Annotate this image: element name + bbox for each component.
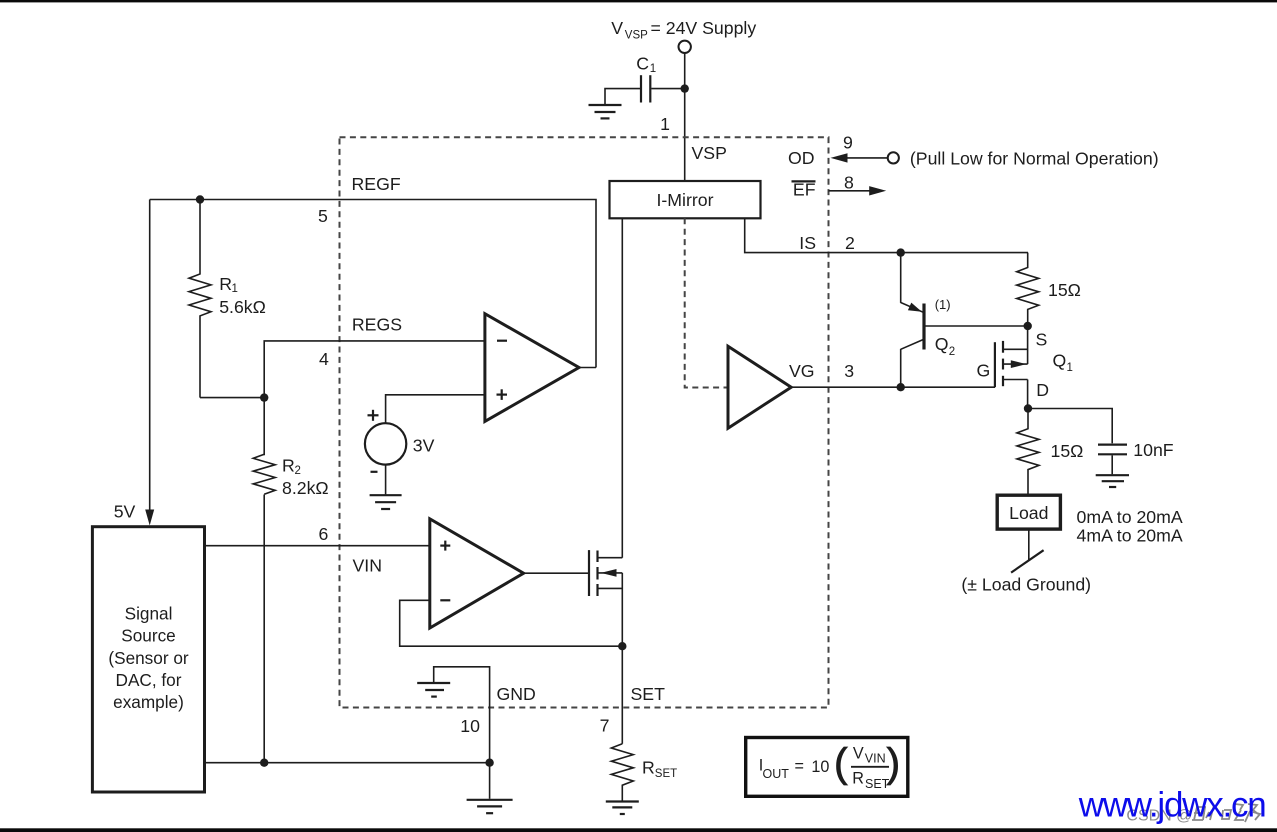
terminal OD — [888, 152, 899, 163]
svg-text:V: V — [853, 745, 864, 763]
svg-text:1: 1 — [660, 114, 670, 134]
wire M1 drain to I-Mirror — [621, 218, 623, 557]
wire U2 output to M1 gate — [524, 572, 588, 574]
ground at GND internal — [417, 683, 450, 697]
wire 3V to op-amp U1 plus input — [386, 395, 485, 423]
svg-text:SET: SET — [631, 684, 666, 704]
svg-text:EF: EF — [793, 179, 816, 199]
svg-text:10nF: 10nF — [1133, 440, 1174, 460]
wire I-Mirror to IS pin — [745, 218, 1028, 252]
svg-text:VIN: VIN — [353, 556, 383, 576]
svg-text:VG: VG — [789, 361, 815, 381]
svg-text:IS: IS — [799, 233, 816, 253]
svg-text:example): example) — [113, 692, 184, 712]
transistor Q2 (PNP) — [901, 303, 924, 350]
wire VG to Q1 gate — [791, 386, 995, 388]
svg-text:(Sensor or: (Sensor or — [108, 648, 189, 668]
wire VIN net — [205, 545, 430, 547]
svg-text:R: R — [219, 274, 232, 294]
label load currents — [1077, 507, 1183, 545]
wire Q2 base to node S — [925, 325, 1028, 327]
wire D node to C2 — [1028, 409, 1112, 444]
pin label EF with overline — [792, 179, 816, 199]
resistor R4 15ohm (D to Load) — [1017, 409, 1039, 494]
svg-text:R: R — [852, 770, 864, 788]
node S — [1023, 322, 1031, 330]
svg-text:2: 2 — [949, 346, 955, 358]
node supply/C1 — [681, 84, 689, 92]
ground at RSET — [606, 802, 639, 815]
svg-text:R: R — [282, 456, 295, 476]
op-amp U1 — [485, 314, 579, 422]
wire op-amp U1 output to REGF — [579, 367, 596, 369]
svg-text:4: 4 — [319, 349, 329, 369]
svg-text:7: 7 — [600, 716, 610, 736]
svg-text:Load: Load — [1009, 503, 1048, 523]
transistor Q1 P-MOSFET — [995, 326, 1028, 409]
svg-text:(: ( — [834, 740, 848, 786]
svg-text:10: 10 — [460, 716, 480, 736]
wire dashed I-Mirror to buffer — [685, 218, 728, 387]
svg-text:1: 1 — [1067, 362, 1073, 374]
svg-text:VSP: VSP — [692, 143, 727, 163]
resistor RSET — [611, 744, 633, 801]
node REGF/R1 — [196, 195, 204, 203]
wire REGF net — [150, 200, 596, 368]
wire R1 bottom to R2 node — [200, 397, 264, 399]
svg-text:2: 2 — [295, 465, 301, 477]
label C1 — [636, 53, 656, 75]
wire C1 to supply node — [651, 88, 684, 90]
ground at C1 — [589, 105, 622, 118]
svg-text:2: 2 — [845, 233, 855, 253]
svg-text:15Ω: 15Ω — [1048, 280, 1081, 300]
svg-text:S: S — [1036, 330, 1048, 350]
capacitor C1 — [641, 75, 650, 102]
wire bus to ground — [489, 763, 491, 799]
load box — [997, 495, 1060, 529]
wire R2 to ground bus — [263, 495, 265, 763]
svg-text:10: 10 — [811, 758, 829, 776]
svg-text:REGS: REGS — [352, 315, 402, 335]
svg-text:): ) — [887, 740, 901, 786]
op-amp U2 — [430, 519, 524, 628]
svg-text:SET: SET — [655, 768, 677, 780]
wire EF output with arrowhead — [829, 186, 887, 195]
svg-text:G: G — [977, 360, 991, 380]
label R1 — [219, 274, 238, 295]
svg-text:OUT: OUT — [763, 767, 790, 781]
svg-text:DAC, for: DAC, for — [116, 670, 182, 690]
svg-text:5: 5 — [318, 206, 328, 226]
node SET/feedback — [618, 642, 626, 650]
node bus/GND — [485, 759, 493, 767]
svg-text:15Ω: 15Ω — [1051, 441, 1084, 461]
svg-text:(Pull Low for Normal Operation: (Pull Low for Normal Operation) — [910, 148, 1159, 168]
svg-text:VSP: VSP — [625, 30, 648, 42]
svg-text:4mA to 20mA: 4mA to 20mA — [1077, 525, 1183, 545]
svg-text:1: 1 — [650, 63, 656, 75]
wire supply terminal to VSP pin 1 — [684, 53, 686, 181]
watermark CSDN gray — [1126, 804, 1260, 824]
svg-text:= 24V Supply: = 24V Supply — [651, 18, 757, 38]
label RSET — [642, 758, 677, 780]
svg-text:=: = — [795, 758, 804, 776]
svg-text:I-Mirror: I-Mirror — [657, 190, 714, 210]
svg-text:6: 6 — [319, 524, 329, 544]
label R2 — [282, 456, 301, 477]
ground at 3V — [370, 495, 402, 509]
label Q1 — [1053, 351, 1073, 375]
wire C2 to ground — [1111, 455, 1113, 474]
wire Q2 emitter to IS node — [900, 253, 902, 303]
svg-text:www.jdwx.cn: www.jdwx.cn — [1078, 786, 1267, 825]
node R1/R2 — [260, 393, 268, 401]
wire load to ground slash — [1028, 529, 1030, 561]
svg-text:3: 3 — [844, 361, 854, 381]
source V1 3V — [365, 410, 406, 472]
svg-text:9: 9 — [843, 133, 853, 153]
svg-text:5V: 5V — [114, 502, 136, 522]
node bus/R2 — [260, 759, 268, 767]
IC dashed boundary — [340, 137, 829, 707]
wire 5V arrow — [145, 200, 154, 526]
svg-text:VIN: VIN — [865, 752, 886, 766]
svg-text:(± Load Ground): (± Load Ground) — [961, 575, 1091, 595]
ground slash symbol — [1011, 550, 1044, 572]
wire ground bus — [205, 762, 490, 764]
ground at bus — [467, 800, 513, 813]
I-Mirror block — [610, 181, 761, 218]
wire GND pin — [434, 667, 490, 763]
svg-text:C: C — [636, 53, 649, 73]
svg-text:OD: OD — [788, 148, 815, 168]
resistor R3 15ohm (IS to S) — [1017, 253, 1039, 326]
svg-text:1: 1 — [232, 283, 238, 295]
node D — [1024, 404, 1032, 412]
capacitor C2 10nF — [1098, 445, 1127, 455]
wire OD input with arrowhead — [831, 153, 888, 162]
svg-text:Source: Source — [121, 626, 175, 646]
resistor R1 — [189, 200, 211, 398]
wire U2 feedback — [400, 600, 623, 646]
svg-text:Q: Q — [1053, 351, 1067, 371]
transistor M1 internal MOSFET — [589, 550, 622, 646]
svg-text:GND: GND — [497, 684, 536, 704]
ground at C2 — [1096, 475, 1129, 487]
label V_VSP = 24V Supply — [611, 18, 756, 41]
wire C1 to ground — [605, 89, 640, 105]
signal source box — [92, 527, 204, 792]
buffer amplifier A3 — [728, 346, 791, 428]
svg-text:8.2kΩ: 8.2kΩ — [282, 478, 329, 498]
svg-text:Q: Q — [935, 334, 949, 354]
node IS / Q2 emitter — [897, 248, 905, 256]
svg-text:REGF: REGF — [352, 174, 401, 194]
formula box IOUT = 10 (VVIN/RSET) — [746, 738, 908, 797]
node VG / Q2 collector — [897, 383, 905, 391]
label Q2 — [935, 334, 955, 358]
wire SET net — [621, 646, 623, 744]
svg-text:Signal: Signal — [125, 604, 173, 624]
svg-text:0mA to 20mA: 0mA to 20mA — [1077, 507, 1183, 527]
svg-text:D: D — [1036, 380, 1049, 400]
svg-text:5.6kΩ: 5.6kΩ — [219, 297, 266, 317]
svg-text:(1): (1) — [935, 297, 951, 312]
svg-text:3V: 3V — [413, 435, 435, 455]
wire REGS net — [264, 341, 485, 455]
svg-text:R: R — [642, 758, 655, 778]
svg-text:8: 8 — [844, 173, 854, 193]
wire 3V to ground — [385, 465, 387, 495]
wire Q2 collector to VG wire — [900, 349, 902, 387]
resistor R2 — [253, 454, 275, 494]
svg-text:V: V — [611, 18, 623, 38]
terminal 24V supply — [679, 41, 691, 53]
